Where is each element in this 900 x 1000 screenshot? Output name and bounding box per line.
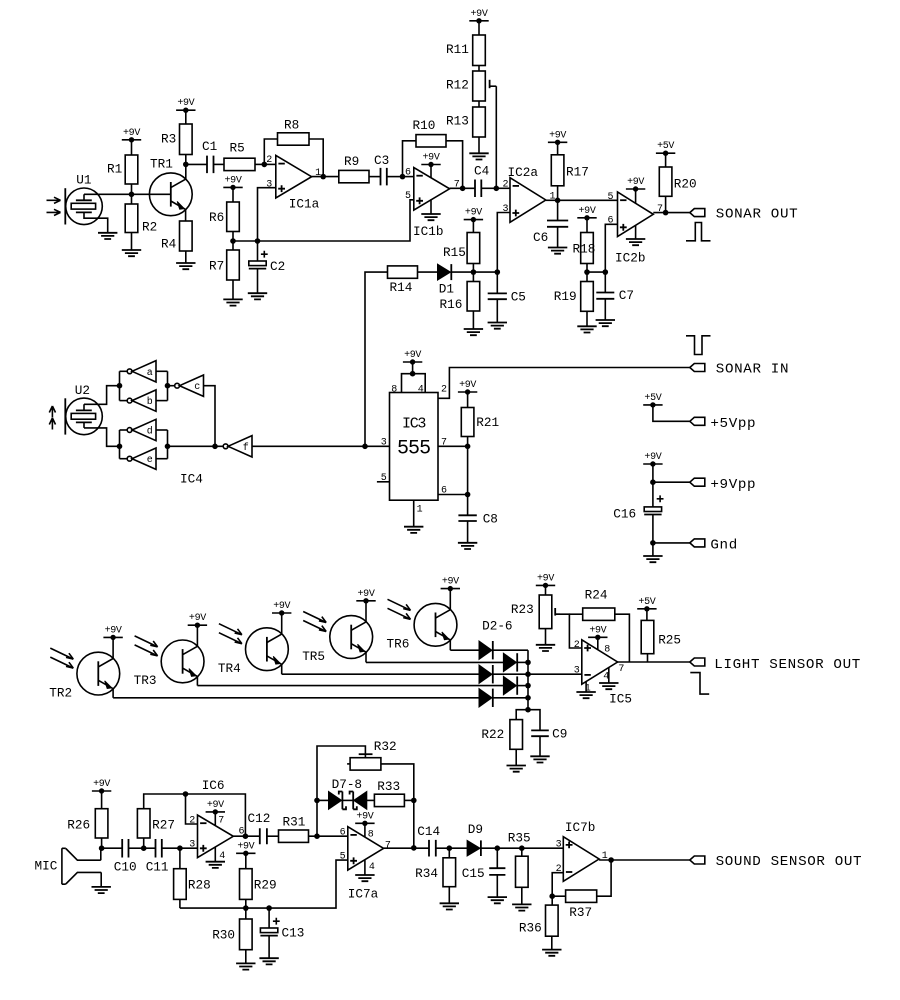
svg-text:TR4: TR4 bbox=[218, 661, 241, 676]
svg-text:R9: R9 bbox=[344, 154, 359, 169]
wire +9V to +9Vpp node bbox=[652, 464, 654, 482]
svg-text:D9: D9 bbox=[468, 822, 483, 837]
+9V supply (R3) bbox=[176, 98, 195, 113]
svg-text:C13: C13 bbox=[282, 925, 305, 940]
diode D8 (schottky) bbox=[350, 792, 367, 810]
svg-text:IC1b: IC1b bbox=[413, 224, 443, 239]
pin 3 (IC3) bbox=[381, 437, 387, 448]
transistor TR1 bbox=[149, 157, 192, 216]
wire TR3 emitter bbox=[196, 677, 198, 686]
wire node to C15 bbox=[496, 848, 498, 868]
wire TR6 row bbox=[450, 649, 479, 651]
svg-text:7: 7 bbox=[218, 815, 224, 826]
pin 8 (IC3) bbox=[391, 384, 397, 395]
svg-text:4: 4 bbox=[219, 851, 225, 862]
capacitor C14 bbox=[417, 824, 440, 856]
svg-text:D7-8: D7-8 bbox=[332, 777, 362, 792]
pin 3 (IC6) bbox=[189, 839, 195, 850]
resistor R3 bbox=[161, 124, 192, 155]
wire R19 to ground bbox=[586, 311, 588, 326]
svg-text:D2-6: D2-6 bbox=[482, 618, 512, 633]
node C4/IC2a pin2/R12 wiper bbox=[494, 186, 500, 192]
wire R5 to IC1a pin2 node bbox=[255, 163, 264, 165]
svg-text:R8: R8 bbox=[284, 118, 299, 133]
ground (R36) bbox=[542, 950, 561, 956]
phototransistor TR3 bbox=[134, 636, 204, 688]
wire R23 to ground bbox=[545, 629, 547, 645]
node feedback/IC6 pin2 bbox=[183, 791, 189, 797]
node a/b inputs bbox=[165, 383, 171, 389]
ground (IC2b) bbox=[626, 239, 645, 245]
ground (R22) bbox=[507, 766, 526, 772]
wire R18 to node bbox=[586, 264, 588, 273]
junction diode bus y697 bbox=[525, 695, 531, 701]
wire node to IC6 pin3 bbox=[180, 847, 198, 849]
pin 6 (IC3) bbox=[441, 486, 447, 497]
wire IC3 pin2 to SONAR IN bbox=[438, 368, 690, 399]
wire R27 feedback top bbox=[144, 794, 246, 836]
resistor R9 bbox=[339, 154, 369, 183]
port +9Vpp bbox=[690, 478, 705, 486]
capacitor C4 bbox=[474, 164, 489, 197]
wire node to R35 bbox=[521, 848, 523, 856]
wire R26 to MIC node bbox=[101, 838, 103, 848]
pin 2 (IC1a) bbox=[266, 155, 272, 166]
wire bias rail (sound) bbox=[180, 860, 348, 908]
svg-text:C16: C16 bbox=[613, 507, 636, 522]
pin 4 (IC7a) bbox=[369, 862, 375, 873]
node D9/C15 bbox=[495, 845, 501, 851]
pin 6 (IC6) bbox=[239, 826, 245, 837]
+9V supply (R11) bbox=[469, 9, 488, 24]
node U2 bottom/d/e bbox=[117, 444, 123, 450]
svg-text:4: 4 bbox=[369, 862, 375, 873]
ground (C9) bbox=[530, 756, 549, 762]
+9V supply (R21) bbox=[458, 380, 477, 395]
capacitor C8 bbox=[458, 511, 498, 526]
pin 7 (IC7a) bbox=[385, 840, 391, 851]
+9V supply (R29) bbox=[236, 841, 255, 856]
svg-text:3: 3 bbox=[381, 437, 387, 448]
ground (C6) bbox=[548, 248, 567, 254]
node bias/C2/IC1a pin3 bbox=[255, 238, 261, 244]
svg-text:D1: D1 bbox=[439, 282, 454, 297]
svg-text:IC7b: IC7b bbox=[565, 820, 595, 835]
wire d-e output bus bbox=[119, 430, 121, 459]
resistor R10 bbox=[413, 118, 447, 147]
wire R34 to ground bbox=[448, 887, 450, 904]
port SOUND SENSOR OUT bbox=[690, 854, 862, 870]
svg-text:R18: R18 bbox=[573, 241, 596, 256]
wire R24 to output bbox=[615, 614, 630, 662]
wire node to R34 bbox=[448, 848, 450, 858]
pin 8 (IC5) bbox=[604, 645, 610, 656]
svg-text:f: f bbox=[243, 442, 249, 454]
ground (IC6) bbox=[206, 862, 225, 868]
wire IC7a out to C14 bbox=[384, 847, 429, 849]
ground (C15) bbox=[488, 897, 507, 903]
wire C6 to ground bbox=[557, 227, 559, 248]
node IC2b pin6/C7 bbox=[603, 269, 609, 275]
wire R35 to ground bbox=[521, 887, 523, 904]
wire to c output bubble bbox=[168, 385, 175, 387]
svg-text:TR6: TR6 bbox=[387, 637, 410, 652]
+9V supply (R6) bbox=[223, 175, 242, 190]
wire C15 to ground bbox=[496, 875, 498, 897]
wire TR4 row bbox=[282, 673, 479, 675]
pin 5 (IC3) bbox=[381, 473, 387, 484]
node C14/R34/D9 bbox=[447, 845, 453, 851]
wire R37 to output bbox=[597, 860, 611, 896]
resistor R22 bbox=[481, 720, 522, 750]
wire +9V to IC1b bbox=[430, 165, 432, 178]
ultrasonic transducer U1 bbox=[47, 173, 108, 233]
wire node to IC7b pin3 bbox=[522, 847, 564, 849]
wire +5V to port bbox=[653, 405, 690, 421]
junction diode bus y674 bbox=[525, 671, 531, 677]
resistor R6 bbox=[209, 202, 239, 232]
wire node to C1 bbox=[186, 163, 207, 165]
+9V supply (TR6) bbox=[441, 577, 460, 592]
falling edge symbol bbox=[690, 673, 709, 695]
inverter IC4d bbox=[127, 419, 156, 440]
wire IC7a to ground bbox=[364, 860, 366, 875]
wire R6 to bias node bbox=[232, 232, 234, 242]
pin 7 (IC1b) bbox=[454, 180, 460, 191]
svg-text:R11: R11 bbox=[446, 42, 469, 57]
wire +9V to R11 bbox=[478, 21, 480, 35]
svg-text:7: 7 bbox=[385, 840, 391, 851]
node C10/R27/C11 bbox=[141, 845, 147, 851]
wire C2 to ground bbox=[257, 269, 259, 294]
resistor R29 bbox=[240, 869, 277, 900]
svg-text:R13: R13 bbox=[446, 113, 469, 128]
resistor R2 bbox=[125, 204, 157, 234]
svg-text:C15: C15 bbox=[462, 866, 485, 881]
wire +9V to IC7a bbox=[364, 823, 366, 837]
svg-text:5: 5 bbox=[608, 192, 614, 203]
pin 4 (IC3) bbox=[418, 384, 424, 395]
wire IC6 to ground bbox=[214, 847, 216, 862]
ground (C16) bbox=[643, 556, 662, 562]
+9V supply (IC3) bbox=[403, 350, 422, 365]
wire C5 to ground bbox=[496, 299, 498, 322]
stub inverter b output side bbox=[156, 400, 168, 402]
svg-text:SONAR OUT: SONAR OUT bbox=[716, 206, 798, 222]
op-amp IC2a bbox=[508, 165, 546, 222]
wire +9V to IC6 bbox=[214, 812, 216, 826]
svg-text:2: 2 bbox=[441, 384, 447, 395]
capacitor C16 bbox=[613, 495, 663, 521]
ground (IC5 pin4) bbox=[599, 683, 618, 689]
svg-text:Gnd: Gnd bbox=[710, 538, 738, 554]
wire R30 to ground bbox=[245, 950, 247, 964]
svg-text:R3: R3 bbox=[161, 132, 176, 147]
ground (R4) bbox=[176, 263, 195, 269]
resistor R8 bbox=[278, 118, 310, 146]
wire node to R16 bbox=[472, 272, 474, 281]
wire R22 to ground bbox=[515, 749, 517, 765]
svg-text:MIC: MIC bbox=[35, 859, 58, 874]
resistor R33 bbox=[374, 779, 404, 807]
svg-text:U1: U1 bbox=[76, 173, 91, 188]
inverter IC4a bbox=[127, 361, 156, 382]
svg-text:C12: C12 bbox=[248, 811, 271, 826]
junction diode bus y662 bbox=[525, 660, 531, 666]
ground (R19) bbox=[577, 326, 596, 332]
pin 1 (IC1a) bbox=[315, 168, 321, 179]
pulse symbol (sonar in) bbox=[686, 336, 711, 355]
svg-text:IC6: IC6 bbox=[202, 778, 225, 793]
wire +9V to TR5 collector bbox=[365, 601, 367, 622]
ground (R16) bbox=[464, 329, 483, 335]
wire TR2 row bbox=[113, 697, 479, 699]
svg-text:c: c bbox=[194, 382, 200, 393]
ground (R7) bbox=[223, 299, 242, 305]
op-amp IC7a bbox=[348, 827, 384, 902]
ground (U1) bbox=[98, 233, 117, 239]
node R5/R8/IC1a pin2 bbox=[262, 162, 268, 168]
wire R9 to C3 bbox=[369, 176, 381, 178]
pin 7 (IC2b) bbox=[657, 204, 663, 215]
wire R10 to IC1b output bbox=[446, 141, 463, 189]
node Gnd bbox=[650, 540, 656, 546]
wire D4 to bus bbox=[493, 673, 528, 675]
pin 4 (IC5) bbox=[603, 671, 609, 682]
wire TR5 row bbox=[366, 661, 503, 663]
wire C7 to ground bbox=[604, 299, 606, 320]
pin 7 (IC5) bbox=[618, 664, 624, 675]
wire d output bbox=[120, 429, 127, 431]
wire node to IC2b pin5 bbox=[558, 199, 618, 201]
svg-text:2: 2 bbox=[574, 640, 580, 651]
+9V supply (R17) bbox=[548, 130, 567, 145]
svg-text:3: 3 bbox=[556, 840, 562, 851]
wire node to D7 bbox=[317, 799, 329, 801]
resistor R28 bbox=[174, 869, 211, 900]
svg-text:e: e bbox=[147, 455, 153, 466]
resistor R30 bbox=[212, 919, 252, 950]
capacitor C7 bbox=[596, 288, 634, 303]
wire +9V to R21 bbox=[467, 392, 469, 408]
resistor R14 bbox=[388, 266, 418, 295]
pin 3 (IC2a) bbox=[503, 204, 509, 215]
svg-text:R12: R12 bbox=[446, 77, 469, 92]
wire IC3 pin6 bbox=[438, 494, 468, 496]
wire IC6 output bbox=[233, 835, 259, 837]
wire node to C7 bbox=[604, 272, 606, 292]
svg-text:IC2b: IC2b bbox=[615, 251, 645, 266]
+9V supply (R15) bbox=[464, 208, 483, 223]
ground (R23) bbox=[536, 645, 555, 651]
wire node to C5 node bbox=[473, 271, 497, 273]
pin 5 (IC7a) bbox=[340, 851, 346, 862]
node IC3 pins 8-4 bbox=[410, 371, 416, 377]
wire a-b output bus bbox=[119, 371, 121, 400]
+9V supply (R23) bbox=[536, 573, 555, 588]
capacitor C6 bbox=[533, 221, 568, 246]
pin 2 (IC7b) bbox=[556, 864, 562, 875]
pin 1 (IC5) bbox=[585, 683, 591, 694]
resistor R4 bbox=[161, 221, 192, 252]
trimmer R23 wiper bbox=[555, 608, 560, 616]
+9V supply (IC2b) bbox=[626, 177, 645, 192]
IC3 pins 8/4 bracket bbox=[402, 374, 426, 393]
wire IC5 pin4 to ground bbox=[608, 668, 610, 684]
ground (IC1b) bbox=[421, 214, 440, 220]
svg-text:R37: R37 bbox=[569, 905, 592, 920]
svg-text:SOUND SENSOR OUT: SOUND SENSOR OUT bbox=[716, 854, 863, 870]
node U2 top/a/b bbox=[117, 383, 123, 389]
wire IC3 pin1 to ground bbox=[413, 500, 415, 527]
pin 5 (IC2b) bbox=[608, 192, 614, 203]
resistor R19 bbox=[554, 282, 594, 312]
wire R3 to collector node bbox=[185, 155, 187, 165]
wire node to R19 bbox=[586, 272, 588, 281]
phototransistor TR4 bbox=[218, 624, 288, 676]
wire C14 to R34 node bbox=[436, 847, 450, 849]
wire node to R35 node bbox=[497, 847, 522, 849]
node IC1a out/R8/R9 bbox=[320, 174, 326, 180]
node rail/C13 bbox=[266, 905, 272, 911]
wire +5V to R20 bbox=[665, 153, 667, 167]
svg-text:IC2a: IC2a bbox=[508, 165, 539, 180]
svg-text:C1: C1 bbox=[202, 139, 217, 154]
svg-text:C8: C8 bbox=[483, 511, 498, 526]
wire IC3 pin7 bbox=[438, 445, 468, 447]
resistor R18 bbox=[573, 233, 596, 264]
wire node to C2 bbox=[257, 241, 259, 261]
svg-text:5: 5 bbox=[405, 191, 411, 202]
ground (IC5 pin1) bbox=[576, 692, 595, 698]
svg-text:C2: C2 bbox=[270, 259, 285, 274]
wire R4 to ground bbox=[185, 251, 187, 263]
wire rail to R30 bbox=[245, 908, 247, 919]
pin 3 (IC5) bbox=[574, 666, 580, 677]
+9V supply (IC7a) bbox=[355, 811, 374, 826]
wire C13 to ground bbox=[268, 936, 270, 959]
trimmer R12 wiper bbox=[490, 80, 497, 88]
wire node to TR1 collector bbox=[185, 164, 187, 179]
wire +9V to R29 bbox=[245, 853, 247, 868]
wire U1 to base node bbox=[84, 193, 132, 195]
svg-text:3: 3 bbox=[574, 666, 580, 677]
wire IC5 pin1 to ground bbox=[585, 682, 587, 693]
label +5Vpp bbox=[710, 416, 756, 432]
resistor R27 bbox=[137, 809, 175, 838]
stub inverter a output side bbox=[156, 370, 168, 372]
wire node to R2 bbox=[131, 194, 133, 204]
pin 1 (IC7b) bbox=[602, 851, 608, 862]
svg-text:5: 5 bbox=[340, 851, 346, 862]
svg-text:R23: R23 bbox=[511, 602, 534, 617]
node IC7b out/R37 bbox=[608, 857, 614, 863]
wire R25 to output bbox=[647, 654, 649, 662]
svg-text:3: 3 bbox=[503, 204, 509, 215]
wire TR5 emitter bbox=[365, 652, 367, 662]
svg-text:2: 2 bbox=[266, 155, 272, 166]
svg-text:8: 8 bbox=[391, 384, 397, 395]
wire node to C16 bbox=[652, 482, 654, 507]
node R31/R32 branch/IC7a pin6 bbox=[314, 833, 320, 839]
wire C3 to IC1b pin6 node bbox=[387, 176, 403, 178]
node D7/R32 branch bbox=[314, 798, 320, 804]
wire IC1b out to C4 bbox=[450, 187, 475, 189]
wire pin2 branch bbox=[186, 794, 198, 824]
+9V supply (TR3) bbox=[188, 613, 207, 628]
wire D5 to bus bbox=[517, 685, 528, 687]
wire C11 to IC6 pin3 node bbox=[162, 847, 180, 849]
resistor R5 bbox=[224, 140, 255, 170]
resistor R20 bbox=[659, 167, 696, 196]
svg-text:U2: U2 bbox=[75, 383, 90, 398]
svg-text:IC5: IC5 bbox=[609, 692, 632, 707]
svg-text:555: 555 bbox=[397, 438, 430, 461]
svg-text:4: 4 bbox=[418, 384, 424, 395]
node IC2a out/R17/C6/IC2b pin5 bbox=[555, 198, 561, 204]
node d/e inputs bbox=[165, 444, 171, 450]
wire D3 to bus bbox=[517, 661, 528, 663]
svg-text:R30: R30 bbox=[212, 927, 235, 942]
wire R33 to node bbox=[404, 799, 413, 801]
op-amp IC7b bbox=[563, 820, 599, 881]
svg-text:C3: C3 bbox=[374, 153, 389, 168]
wire node to IC2a pin2 bbox=[496, 187, 510, 189]
ground (C5) bbox=[488, 323, 507, 329]
svg-text:IC4: IC4 bbox=[180, 472, 203, 487]
capacitor C11 bbox=[146, 839, 169, 875]
ground (IC7a) bbox=[355, 875, 374, 881]
+5V supply (R25) bbox=[637, 597, 656, 612]
label IC4 bbox=[180, 472, 203, 487]
svg-text:TR1: TR1 bbox=[150, 157, 173, 172]
svg-text:IC1a: IC1a bbox=[289, 197, 320, 212]
svg-text:a: a bbox=[147, 368, 153, 379]
wire IC1a out to R9 bbox=[312, 176, 339, 178]
node R15/D1/R16 bbox=[471, 269, 477, 275]
resistor R24 bbox=[583, 587, 615, 620]
svg-text:R6: R6 bbox=[209, 210, 224, 225]
wire +9V to R1 bbox=[131, 140, 133, 155]
svg-text:C11: C11 bbox=[146, 860, 169, 875]
wire IC7b pin2 bbox=[552, 873, 563, 897]
trimmer R23 bbox=[511, 595, 552, 629]
wire TR3 row bbox=[197, 685, 503, 687]
wire R36 to ground bbox=[551, 936, 553, 949]
wire diode bus bbox=[527, 650, 529, 710]
pin 6 (IC7a) bbox=[340, 827, 346, 838]
wire C10 to R27 node bbox=[129, 847, 144, 849]
svg-text:d: d bbox=[147, 426, 153, 438]
node C3/R10/IC1b pin6 bbox=[400, 174, 406, 180]
wire +9V to R3 bbox=[185, 110, 187, 124]
wire node to R36 bbox=[551, 896, 553, 905]
wire R21 to pin7 node bbox=[467, 437, 469, 447]
resistor R16 bbox=[440, 282, 480, 312]
wire C12 to R31 bbox=[267, 835, 279, 837]
resistor R34 bbox=[415, 858, 456, 887]
+5V supply (+5Vpp) bbox=[643, 393, 662, 408]
svg-text:2: 2 bbox=[189, 815, 195, 826]
wire +9V to TR4 collector bbox=[281, 613, 283, 634]
wire R18 node to C7 node bbox=[587, 271, 605, 273]
wire node to R37 bbox=[552, 895, 565, 897]
+9V supply (IC6) bbox=[206, 800, 225, 815]
label Gnd bbox=[710, 538, 738, 554]
wire pin7 node to pin6 node bbox=[467, 446, 469, 494]
stub inverter e output side bbox=[156, 458, 168, 460]
pin 2 (IC3) bbox=[441, 384, 447, 395]
